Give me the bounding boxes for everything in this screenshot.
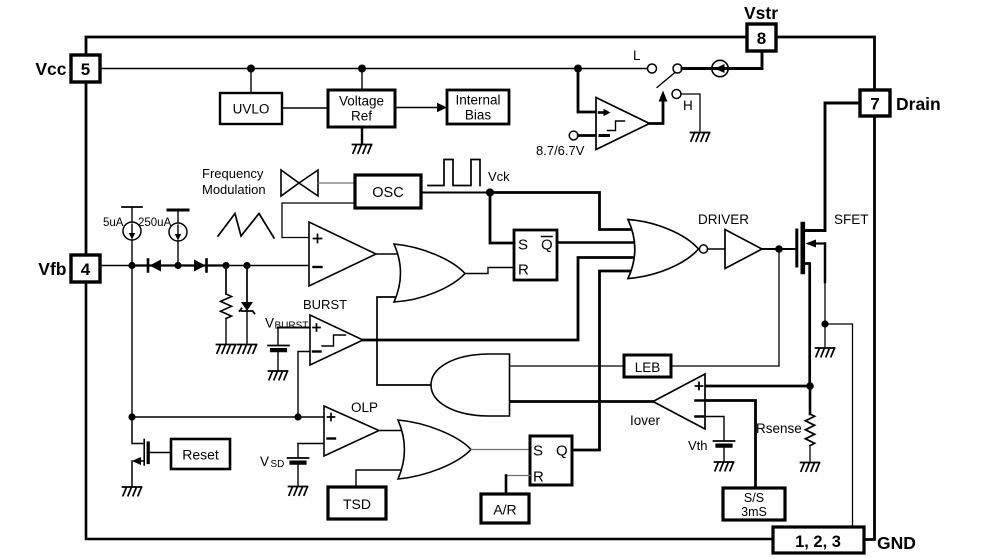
svg-text:Vcc: Vcc — [35, 59, 66, 79]
svg-text:V: V — [260, 454, 269, 469]
svg-text:Frequency: Frequency — [202, 166, 264, 181]
svg-text:BURST: BURST — [275, 321, 309, 332]
svg-text:R: R — [533, 469, 544, 486]
battery VSD — [288, 458, 309, 463]
svg-text:Vth: Vth — [688, 438, 708, 453]
node: Vcc/UVLO junction — [247, 65, 255, 73]
svg-text:A/R: A/R — [493, 502, 516, 518]
switch arm — [657, 73, 675, 88]
ground below resistor — [217, 345, 236, 354]
svg-text:H: H — [683, 98, 693, 113]
node: gate/LEB junction — [775, 245, 783, 253]
resistor to ground on Vfb divider — [225, 266, 227, 295]
svg-text:UVLO: UVLO — [233, 102, 270, 117]
switch contact L — [648, 64, 657, 73]
svg-text:Vck: Vck — [488, 169, 510, 184]
svg-text:S/S: S/S — [744, 491, 764, 505]
wire: SFET source down to Rsense node — [805, 264, 810, 387]
wire: drop to Voltage Ref — [361, 69, 363, 91]
svg-text:DRIVER: DRIVER — [698, 212, 749, 227]
buffer DRIVER triangle — [725, 230, 762, 269]
svg-text:Reset: Reset — [182, 447, 219, 463]
wire: Iover + input from Rsense node — [705, 385, 810, 388]
wire: bubble to DRIVER — [708, 248, 725, 250]
current source 250uA supply bar — [168, 209, 188, 212]
OR gate U5 (OLP/TSD) — [398, 420, 471, 479]
switch wiper contact — [673, 64, 682, 73]
svg-text:250uA: 250uA — [138, 217, 172, 229]
svg-text:TSD: TSD — [343, 496, 371, 512]
svg-text:1, 2, 3: 1, 2, 3 — [795, 533, 841, 551]
op-amp PWM comparator — [309, 222, 376, 286]
wire: OR output to R of flip-flop U1 — [465, 268, 514, 274]
wire: Vck down to S of flip-flop U1 — [490, 193, 514, 244]
block A/R — [481, 494, 529, 523]
svg-text:5uA: 5uA — [103, 217, 124, 229]
svg-text:L: L — [633, 48, 641, 63]
wire: left rail pin5 to pin4 — [85, 82, 88, 255]
wire: comparator - input — [578, 134, 596, 137]
wire: DRIVER output to SFET gate — [762, 248, 797, 250]
svg-text:Internal: Internal — [455, 93, 500, 108]
node: Vcc/comparator junction — [574, 65, 582, 73]
svg-text:Voltage: Voltage — [339, 94, 384, 109]
diode D2 (cathode right) — [194, 260, 206, 272]
svg-text:Ref: Ref — [351, 109, 372, 124]
wire: Vcc rail — [100, 68, 647, 70]
svg-text:S: S — [533, 443, 543, 460]
wire: Qbar output to NOR input 2 — [557, 241, 640, 244]
block Reset — [171, 439, 230, 469]
node: Vcc/VoltageRef junction — [358, 65, 366, 73]
wire: Vfb down to OLP line — [131, 266, 133, 418]
svg-text:8.7/6.7V: 8.7/6.7V — [536, 143, 585, 158]
pin Vcc 5 — [71, 55, 100, 82]
ground below H contact — [691, 133, 710, 142]
zener diode on Vfb divider — [246, 266, 248, 303]
wire: left rail below pin4 and bottom rail to GND bus — [86, 282, 773, 539]
wire: up to BURST - input — [298, 352, 310, 418]
ground below Vth battery — [715, 462, 734, 471]
node: divider junction Z — [243, 262, 250, 269]
transistor SFET — [795, 230, 798, 266]
ground below VBURST battery — [269, 371, 288, 380]
sawtooth waveform — [218, 214, 274, 239]
current source 250uA — [169, 223, 187, 241]
wire: Reset MOSFET drain from OLP line — [132, 417, 144, 444]
wire: PWM comparator output to OR gate — [376, 253, 400, 255]
wire: gate node down to LEB line — [778, 249, 780, 366]
transistor Q1 Reset MOSFET — [143, 440, 145, 466]
frequency modulation valve symbol — [281, 170, 299, 196]
SFET body arrow — [814, 242, 825, 244]
wire: VBURST battery to BURST + input — [278, 327, 310, 329]
block S/S 3mS — [723, 488, 785, 520]
NOR output bubble — [699, 245, 707, 253]
svg-text:Drain: Drain — [896, 94, 941, 114]
diode D1 (cathode left) — [147, 260, 150, 272]
wire: comparator + input feed from Vcc rail — [578, 69, 596, 113]
pin Vstr 8 — [747, 24, 776, 51]
node: 250uA junction — [174, 262, 181, 269]
op-amp OLP comparator — [324, 406, 379, 456]
wire: SFET drain to pin 7 — [805, 103, 860, 231]
resistor Rsense — [809, 386, 812, 414]
ground below VSD battery — [289, 487, 308, 496]
wire: drop to UVLO — [250, 69, 252, 94]
block TSD — [328, 487, 386, 519]
wire: right border below pin 7 down to GND bus — [864, 116, 875, 540]
wire: OLP output to OR gate U5 — [379, 430, 406, 432]
node: BURST - junction on OLP line — [294, 413, 301, 420]
svg-text:S: S — [518, 237, 528, 254]
svg-text:R: R — [518, 262, 529, 279]
svg-text:5: 5 — [81, 60, 90, 79]
wire: BURST output to NOR input 3 — [363, 258, 640, 341]
current source 5uA — [123, 222, 141, 240]
svg-text:8: 8 — [757, 29, 766, 48]
svg-text:Modulation: Modulation — [202, 182, 266, 197]
wire: OSC output to NOR input 1 — [490, 193, 640, 230]
wire: OLP + input line — [132, 416, 324, 418]
wire: top border rail from Vcc pin up and across to Vstr pin 8 — [86, 37, 747, 55]
svg-text:Rsense: Rsense — [756, 421, 802, 436]
wire: AND gate output up to OR gate input — [377, 297, 431, 385]
wire: TSD to OR gate U5 — [356, 470, 406, 487]
node: Rsense junction — [806, 382, 814, 390]
battery Vth — [714, 441, 735, 446]
pin GND bus 1,2,3 — [773, 527, 864, 553]
ground below Voltage Ref — [353, 145, 372, 154]
wire: gate to Reset block — [148, 452, 171, 454]
svg-text:Iover: Iover — [630, 413, 661, 428]
battery VBURST — [268, 346, 289, 351]
wire: Iover output to AND gate input — [510, 400, 653, 403]
svg-text:SFET: SFET — [834, 212, 869, 227]
current source 5uA supply bar — [122, 206, 142, 208]
svg-text:Bias: Bias — [465, 108, 492, 123]
wire: flip-flop U3 Q output to NOR input 4 — [572, 271, 640, 450]
svg-text:4: 4 — [81, 260, 91, 279]
pin Vfb 4 — [71, 255, 100, 282]
ground below sense node — [816, 348, 835, 357]
switch contact H — [672, 90, 681, 99]
wire: sense node to ground — [824, 324, 826, 347]
svg-text:GND: GND — [877, 533, 916, 553]
wire: H contact to ground — [681, 94, 700, 131]
node: sense ground junction — [821, 320, 828, 327]
wire: OR U5 output to S of flip-flop U3 — [471, 449, 530, 451]
block UVLO — [220, 93, 282, 124]
wire: sense node to GND bus — [825, 324, 853, 527]
wire: comparator output up to switch wiper (arrow) — [650, 100, 664, 124]
svg-text:V: V — [265, 316, 274, 331]
wire: arrow Voltage Ref to Internal Bias — [395, 107, 438, 109]
ground below zener — [238, 345, 257, 354]
wire: Iover - input to S/S block — [705, 401, 756, 489]
svg-text:3mS: 3mS — [741, 505, 767, 519]
wire: OSC output — [421, 192, 490, 194]
wire: A/R to R of flip-flop U3 — [506, 475, 530, 477]
svg-text:LEB: LEB — [635, 360, 661, 375]
AND gate U6 (mirrored, inputs right) — [431, 354, 510, 416]
svg-text:BURST: BURST — [303, 297, 347, 312]
ground below Rsense — [801, 463, 820, 472]
wire: UVLO to Voltage Ref — [282, 107, 328, 109]
wire: Iover - input 2 to Vth battery — [705, 417, 724, 440]
op-amp BURST comparator — [310, 315, 363, 365]
svg-text:OLP: OLP — [351, 400, 378, 415]
flip-flop U1 S/R latch — [514, 230, 557, 280]
block Internal Bias — [447, 90, 509, 124]
svg-text:7: 7 — [870, 95, 879, 114]
op-amp Iover comparator (points left) — [653, 374, 705, 429]
wire: wiper to Vstr pin through current source — [682, 51, 762, 69]
wire: Vfb rail from pin 4 to PWM comparator - input — [100, 265, 309, 267]
current source to Vstr — [712, 60, 728, 76]
OR gate U2 (PWM/reset OR) — [394, 244, 465, 302]
node: Vfb junction at pin — [128, 262, 135, 269]
NOR gate U4 (driver logic) — [628, 220, 699, 279]
block Voltage Ref — [328, 90, 395, 127]
flip-flop U3 S/R latch — [530, 436, 572, 485]
node Vck — [486, 188, 494, 196]
block LEB — [624, 355, 671, 377]
node: 8.7/6.7V reference open contact — [569, 131, 578, 140]
svg-text:Vfb: Vfb — [38, 259, 66, 279]
wire: OSC sawtooth feed to PWM comparator + — [282, 203, 355, 238]
node: OLP line left junction — [128, 413, 135, 420]
block OSC — [355, 175, 421, 208]
svg-text:SD: SD — [271, 459, 285, 470]
wire: Voltage Ref ground stem — [361, 127, 363, 144]
ground below Reset MOSFET — [123, 487, 142, 496]
node: divider junction R — [222, 262, 229, 269]
svg-text:Vstr: Vstr — [744, 3, 778, 23]
svg-text:Q: Q — [541, 237, 553, 254]
wire: LEB line from AND gate through LEB to gate node — [509, 365, 624, 367]
svg-text:OSC: OSC — [372, 185, 403, 201]
wire: valve to OSC — [318, 182, 355, 184]
svg-text:Q: Q — [556, 443, 568, 460]
pin Drain 7 — [860, 90, 890, 116]
wire: top border rail from pin 8 to top-right corner down to Drain pin 7 — [776, 37, 875, 90]
Vck clock waveform — [428, 160, 480, 186]
op-amp: startup comparator — [596, 98, 650, 150]
wire: VSD battery to OLP - input — [298, 443, 324, 445]
